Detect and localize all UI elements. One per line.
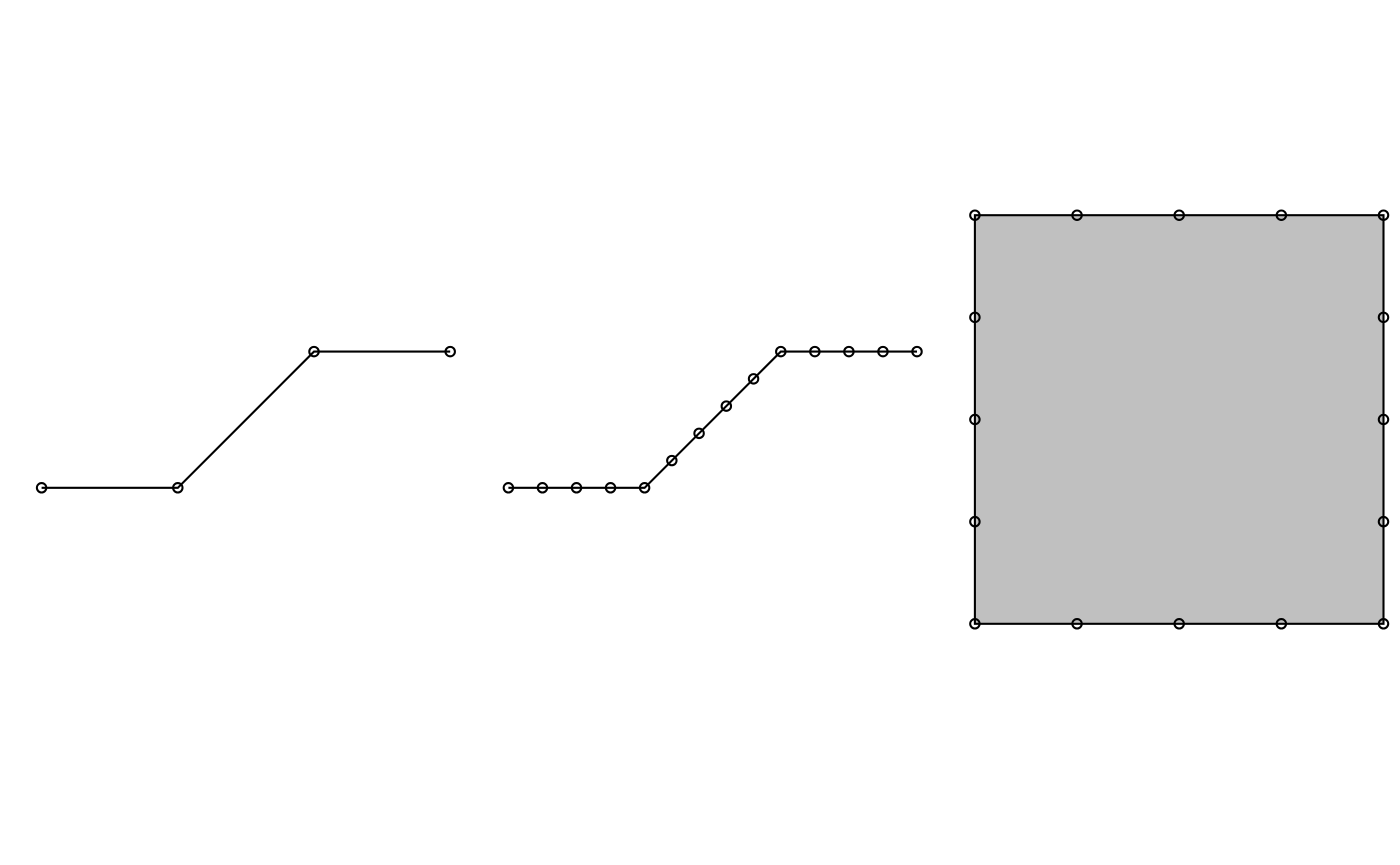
node M4	[606, 483, 615, 492]
node L2	[173, 483, 182, 492]
node S-bottom-1	[970, 619, 979, 628]
element: gray square patch	[975, 215, 1384, 624]
node S-bottom-4	[1277, 619, 1286, 628]
node S-top-1	[970, 210, 979, 219]
node L1	[37, 483, 46, 492]
node S-bottom-3	[1174, 619, 1183, 628]
node M1	[504, 483, 513, 492]
node M9	[749, 374, 758, 383]
node M6	[667, 456, 676, 465]
node S-top-4	[1277, 210, 1286, 219]
node M3	[572, 483, 581, 492]
node S-left-3	[970, 517, 979, 526]
node S-right-3	[1379, 517, 1388, 526]
node M7	[694, 429, 703, 438]
node M5	[640, 483, 649, 492]
node S-left-2	[970, 415, 979, 424]
node S-right-2	[1379, 415, 1388, 424]
wire: middle refined polyline	[508, 352, 917, 488]
node S-bottom-2	[1072, 619, 1081, 628]
node M8	[722, 401, 731, 410]
node M14	[912, 347, 921, 356]
node S-top-2	[1072, 210, 1081, 219]
node S-top-3	[1174, 210, 1183, 219]
node M10	[776, 347, 785, 356]
node L4	[445, 347, 454, 356]
node L3	[309, 347, 318, 356]
node S-bottom-5	[1379, 619, 1388, 628]
node S-right-1	[1379, 313, 1388, 322]
node M2	[538, 483, 547, 492]
wire: left coarse polyline	[42, 352, 451, 488]
node M11	[810, 347, 819, 356]
node M12	[844, 347, 853, 356]
node S-top-5	[1379, 210, 1388, 219]
node S-left-1	[970, 313, 979, 322]
node M13	[878, 347, 887, 356]
